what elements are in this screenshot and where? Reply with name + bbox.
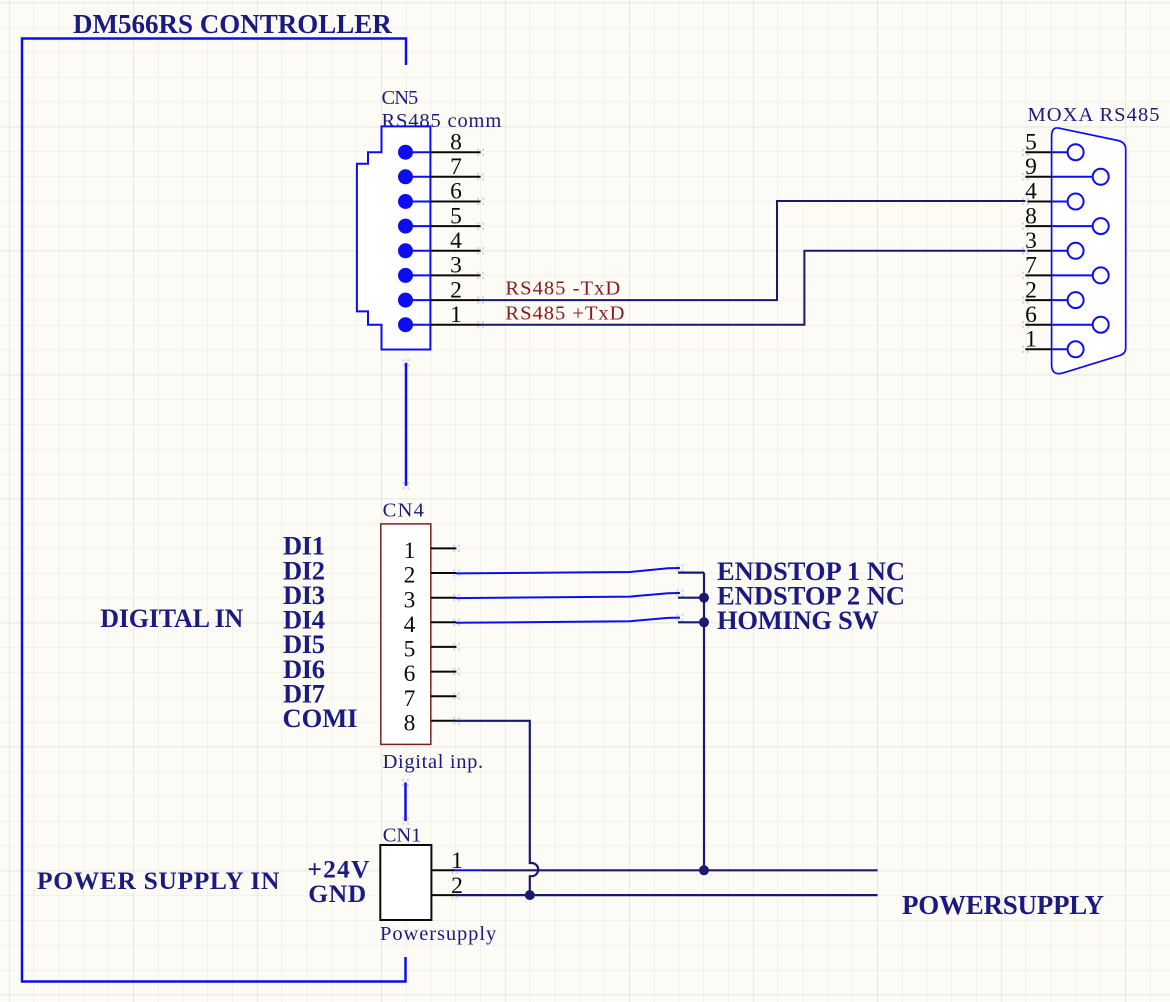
svg-text:1: 1 [1025,327,1037,353]
svg-text:4: 4 [1025,179,1037,205]
svg-text:7: 7 [1025,253,1037,279]
svg-text:8: 8 [404,710,416,736]
CN1 pin stubs [431,870,455,895]
svg-text:9: 9 [1025,154,1037,180]
svg-text:POWERSUPPLY: POWERSUPPLY [902,890,1104,920]
wire CN4.3 to endstop2 (blue sloped) [456,593,680,598]
svg-text:MOXA RS485: MOXA RS485 [1028,104,1160,126]
wire CN4.2 to endstop1 (blue sloped) [456,568,680,573]
svg-text:DM566RS CONTROLLER: DM566RS CONTROLLER [73,9,392,39]
wire COMI to GND rail (with hop over +24V) [456,721,538,895]
CN5 pin dots [398,145,413,333]
svg-text:8: 8 [1025,203,1037,229]
svg-text:2: 2 [404,563,416,589]
svg-text:5: 5 [404,637,416,663]
svg-text:GND: GND [308,879,366,908]
svg-text:6: 6 [450,179,462,205]
junction homing [699,617,709,627]
svg-text:COMI: COMI [283,703,358,733]
MOXA pin leads (blue) and sockets [1052,144,1109,357]
svg-text:CN5: CN5 [382,87,419,109]
svg-text:POWER SUPPLY IN: POWER SUPPLY IN [37,866,280,895]
svg-text:Digital inp.: Digital inp. [383,751,484,773]
svg-text:DIGITAL IN: DIGITAL IN [100,604,243,633]
wire CN5.1 to MOXA.3 [480,251,1025,325]
controller boundary outline [22,39,406,982]
wire endstop bus vertical [703,573,705,871]
svg-text:HOMING SW: HOMING SW [717,605,880,635]
svg-text:8: 8 [450,129,462,155]
wire endstop2 stub [678,597,704,599]
connector CN4 body [381,524,431,745]
svg-text:2: 2 [1025,277,1037,303]
svg-text:CN1: CN1 [383,825,422,847]
CN5 pin leads (blue, dot to body edge) [406,152,431,325]
svg-text:RS485 +TxD: RS485 +TxD [505,302,624,324]
svg-text:4: 4 [404,612,416,638]
wire GND rail [455,894,878,896]
svg-text:RS485 -TxD: RS485 -TxD [505,278,620,300]
MOXA pin stubs (black) [1025,152,1051,349]
pin hotspot markers [477,149,484,156]
svg-text:7: 7 [450,154,462,180]
junction endstop2 [699,593,709,603]
svg-text:4: 4 [450,228,462,254]
junction endstop bus to +24V [699,865,709,875]
CN5 pin stubs [430,152,480,325]
connector CN5 body (notched housing polygon) [357,126,431,349]
CN5 pin numbers [450,129,462,328]
CN1 pin numbers [451,848,463,899]
CN4 pin numbers [404,538,416,736]
svg-text:3: 3 [1025,228,1037,254]
wire +24V rail [481,869,878,871]
svg-text:1: 1 [404,538,416,564]
svg-text:3: 3 [450,253,462,279]
svg-text:5: 5 [450,203,462,229]
svg-text:5: 5 [1025,129,1037,155]
junction COMI-GND [525,890,535,900]
wire endstop1 stub [678,571,704,573]
connector MOXA DB9 body [1052,128,1126,374]
wire +24V blue segment at CN1.1 [455,869,481,871]
svg-text:3: 3 [404,587,416,613]
svg-text:CN4: CN4 [383,500,424,522]
svg-text:2: 2 [450,277,462,303]
MOXA pin numbers [1025,129,1037,352]
svg-text:6: 6 [1025,302,1037,328]
svg-text:6: 6 [404,661,416,687]
CN4 pin stubs [431,548,457,720]
connector CN1 body [380,845,431,920]
wire CN5.2 to MOXA.4 [480,201,1025,300]
svg-text:1: 1 [450,302,462,328]
wire CN4.4 to homing (blue sloped) [456,618,680,623]
wire CN5 to CN4 vertical [405,363,408,486]
svg-text:Powersupply: Powersupply [380,923,497,945]
wire homing stub [678,621,704,623]
wire CN1 to boundary stub [404,783,407,822]
svg-text:7: 7 [404,686,416,712]
